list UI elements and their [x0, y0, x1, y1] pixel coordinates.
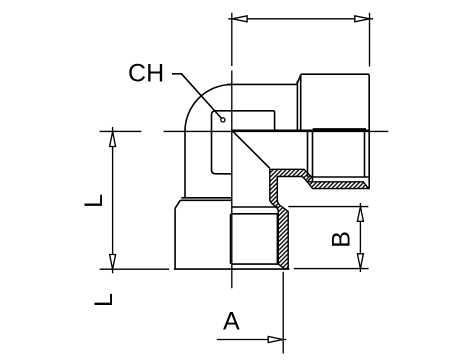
chamfer body to right port	[297, 74, 301, 84]
bore rect bottom port	[232, 214, 278, 264]
section cut edge horizontal	[232, 129, 369, 131]
left dimension line	[112, 127, 114, 273]
arrow B-top	[357, 207, 363, 222]
counterbore end line bottom port	[232, 206, 278, 208]
CH leader	[172, 74, 221, 118]
B bottom extension	[294, 268, 369, 270]
bore upper line right port	[313, 128, 366, 130]
thread band right port (hatched)	[307, 182, 368, 189]
hex flat outline	[212, 111, 275, 174]
arrow B-bottom	[357, 254, 363, 269]
top dim right extension	[369, 13, 371, 67]
B dimension line	[359, 203, 361, 272]
bottom port left edge	[174, 208, 176, 269]
dimension lines	[100, 13, 374, 354]
bore miter diagonal	[232, 130, 270, 168]
bore entry line at face right port	[364, 131, 366, 177]
body top edge	[227, 83, 297, 85]
top dimension line	[228, 18, 373, 20]
horizontal centerline	[100, 130, 389, 132]
band bottom to face	[368, 188, 371, 190]
A extension line	[282, 272, 284, 354]
right port shoulder line 1	[296, 81, 298, 131]
arrow top-right	[355, 16, 370, 22]
arrow left-top	[110, 132, 116, 147]
arrows (open triangles)	[110, 16, 370, 343]
bottom port bottom face	[174, 268, 290, 270]
body outer arc	[185, 84, 232, 131]
CH leader dot	[221, 118, 225, 122]
svg-text:B: B	[328, 231, 356, 248]
arrow top-left	[232, 16, 247, 22]
arrow left-bottom	[110, 255, 116, 270]
svg-text:L: L	[90, 293, 118, 307]
thread crest line right port	[312, 176, 370, 178]
A dimension line	[217, 339, 286, 341]
right port top edge	[301, 74, 369, 76]
svg-text:A: A	[223, 308, 240, 336]
bottom port chamfer	[175, 200, 180, 208]
body left edge	[184, 131, 186, 198]
thread band corner (hatched)	[270, 169, 312, 268]
thread end line right port	[307, 131, 309, 177]
section cut edge vertical	[229, 214, 231, 264]
vertical centerline	[231, 13, 233, 289]
bottom port top edge 2	[180, 199, 232, 201]
left dim bottom extension	[100, 268, 170, 270]
svg-text:L: L	[80, 194, 108, 208]
counterbore end line right port	[312, 131, 314, 182]
right port shoulder line 2	[300, 74, 302, 131]
bottom port top edge 1	[181, 197, 232, 199]
right port face	[368, 76, 370, 189]
arrow A	[268, 337, 283, 343]
svg-text:CH: CH	[128, 60, 164, 88]
B top extension	[288, 206, 368, 208]
